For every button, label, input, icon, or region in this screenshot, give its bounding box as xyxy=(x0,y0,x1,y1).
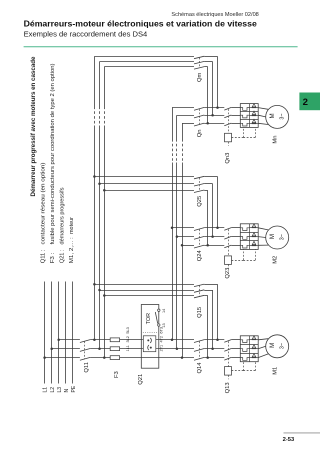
node: bus tap feed1 xyxy=(93,175,96,178)
svg-text:3~: 3~ xyxy=(279,234,285,240)
node: bus tap feed2 xyxy=(98,289,101,292)
svg-text:Démarreurs-moteur électronique: Démarreurs-moteur électroniques et varia… xyxy=(24,19,257,29)
node: starter bus to Q24 row1 xyxy=(171,227,174,230)
contactor Q15 pole 3 xyxy=(194,295,204,298)
terminal 14 of Q21 xyxy=(158,309,160,311)
contactor Q24 pole 2 xyxy=(194,236,204,239)
node: starter bus to Q24 row2 xyxy=(176,235,179,238)
svg-text:3L2: 3L2 xyxy=(126,336,130,342)
node: L3 tap junction xyxy=(57,339,60,342)
wire: starter bus corner row3 to Qn xyxy=(182,123,194,125)
wire: Qn3 out row2 to overload block xyxy=(231,115,240,117)
svg-text:N: N xyxy=(64,389,70,393)
wire: Q23 out row1 to overload block xyxy=(231,227,240,229)
wire: starter output bus vertical 2 xyxy=(176,115,178,139)
wire: line bus vertical 2 xyxy=(99,62,101,107)
phase-control unit box inside Q21 xyxy=(143,336,156,352)
fuse F3 pole 1 xyxy=(110,338,119,342)
wire: Qm out 3 with corner down xyxy=(204,66,207,68)
wire: line bus vertical 3 xyxy=(104,67,106,107)
contactor Q11 pole 2 xyxy=(80,349,90,352)
svg-text:M: M xyxy=(269,113,276,118)
svg-text:Q14: Q14 xyxy=(197,362,203,374)
contactor Q25 pole 3 xyxy=(194,190,204,193)
trip linkage Q13 to overload block xyxy=(232,370,244,372)
svg-text:F3 :: F3 : xyxy=(50,253,56,264)
title rule xyxy=(24,46,298,48)
overload release element row1 of Q23 xyxy=(240,228,249,231)
wire: bypass feed 2 xyxy=(100,290,195,292)
node: bus tap feed1 xyxy=(93,283,96,286)
svg-text:L3: L3 xyxy=(57,387,63,393)
node: line bus tap row1 xyxy=(93,339,96,342)
node: bypass rejoin row2 xyxy=(211,347,214,350)
overload-semiconductor block of Q23 xyxy=(240,224,258,250)
wire: starter bus corner row2 to Qn xyxy=(177,115,194,117)
wire: block to motor M1 phase1 xyxy=(258,339,268,340)
svg-text:L2: L2 xyxy=(50,387,56,393)
wire: Q23 out row3 to overload block xyxy=(231,245,240,247)
mechanical stub below Qn3 xyxy=(228,142,230,146)
wire: row3 inside Q21 xyxy=(141,357,159,359)
svg-text:2: 2 xyxy=(303,97,308,108)
svg-text:2-53: 2-53 xyxy=(283,437,295,443)
contactor Qn pole 2 xyxy=(194,115,204,118)
wire: Qn3 out row3 to overload block xyxy=(231,123,240,125)
wire: Q13 out row1 to overload block xyxy=(231,339,240,341)
overload release element row2 of Qn3 xyxy=(240,115,249,118)
wire: starter rows to Q24 row3 xyxy=(182,245,194,247)
wire: Q25 out 3 with corner down xyxy=(204,190,207,192)
node: L1 tap junction xyxy=(43,356,46,359)
wire: Qn out row1 xyxy=(204,107,224,109)
semiconductor element row3 of Q23 xyxy=(252,241,255,244)
terminal 13 of Q21 xyxy=(158,324,160,326)
wire: PE rail xyxy=(72,282,74,384)
node: bypass rejoin row3 xyxy=(206,244,209,247)
trip unit Q13 box xyxy=(225,367,232,376)
wire: bypass feed 2 xyxy=(100,61,195,63)
svg-text:Q21 :: Q21 : xyxy=(59,249,65,263)
separator inside Q21 xyxy=(143,332,157,334)
semiconductor element row2 of Q13 xyxy=(252,345,255,348)
svg-text:M: M xyxy=(269,343,276,348)
svg-text:Q21: Q21 xyxy=(138,374,144,385)
breaker Qn3 contact 2 xyxy=(224,115,231,118)
node: starter bus to Q24 row3 xyxy=(181,244,184,247)
wire: fuse2 to Q21 3L2 xyxy=(120,348,142,350)
contactor Q24 pole 3 xyxy=(194,245,204,248)
semiconductor element row1 of Q23 xyxy=(252,224,255,227)
svg-text:1L1: 1L1 xyxy=(126,345,130,351)
thyristor symbol a inside Q21 xyxy=(147,339,149,341)
wire: bypass feed 3 xyxy=(104,295,194,297)
wire: block to motor M2 phase3 xyxy=(258,244,268,246)
wire: L1 to Q11 pole 3 xyxy=(45,357,80,359)
svg-text:PE: PE xyxy=(71,385,77,392)
semiconductor element row3 of Qn3 xyxy=(252,119,255,122)
fuse F3 pole 3 xyxy=(110,356,119,360)
svg-text:Exemples de raccordement des D: Exemples de raccordement des DS4 xyxy=(24,29,148,38)
mechanical link Q25 xyxy=(199,178,201,192)
wire: Q11 out row2 to fuse F3 pole2 xyxy=(90,348,110,350)
node: bypass rejoin row1 xyxy=(216,106,219,109)
semiconductor element row2 of Q23 xyxy=(252,233,255,236)
mechanical link Qm xyxy=(199,58,201,68)
overload release element row3 of Q23 xyxy=(240,245,249,248)
mechanical stub below Q13 xyxy=(228,375,230,379)
wire: block to motor M1 phase2 xyxy=(258,346,266,348)
wire: Q21 6T3 out row1 xyxy=(159,339,194,341)
wire: block to motor M1 phase3 xyxy=(258,354,268,358)
contactor Q24 pole 1 xyxy=(194,228,204,231)
wire: Q14 out row3 xyxy=(204,357,224,359)
node: starter bus tap row1 xyxy=(171,339,174,342)
mechanical link Q24 xyxy=(199,229,201,247)
svg-text:13: 13 xyxy=(162,323,166,327)
wire: bypass feed 3 xyxy=(104,66,194,68)
svg-text:M2: M2 xyxy=(273,256,279,264)
svg-text:TOR: TOR xyxy=(146,313,152,324)
svg-text:6T3: 6T3 xyxy=(159,327,163,334)
svg-text:M1, 2,... :: M1, 2,... : xyxy=(69,237,75,263)
wire: L3 to Q11 pole 1 xyxy=(59,339,80,341)
trip linkage Q23 to overload block xyxy=(232,260,244,262)
soft starter Q21 body xyxy=(141,305,159,369)
motor M2 xyxy=(266,226,289,249)
contactor Qm pole 1 xyxy=(194,56,204,59)
contactor Qn pole 3 xyxy=(194,123,204,126)
svg-text:3~: 3~ xyxy=(279,114,285,120)
wire: Q24 out row3 xyxy=(204,245,224,247)
overload release element row3 of Qn3 xyxy=(240,123,249,126)
svg-text:démarreurs progressifs: démarreurs progressifs xyxy=(59,187,65,244)
wire: row1 inside Q21 xyxy=(141,339,143,341)
overload-semiconductor block of Q13 xyxy=(240,336,258,362)
svg-text:F3: F3 xyxy=(114,371,120,378)
wire: Q21 4T2 out row2 xyxy=(159,348,194,350)
mechanical link Qn3 xyxy=(228,109,230,133)
wire: fuse3 to Q21 1L1 xyxy=(120,357,142,359)
wire: block to motor Mn phase1 xyxy=(258,108,268,110)
svg-text:Schémas électriques Moeller 02: Schémas électriques Moeller 02/08 xyxy=(171,12,258,18)
wire: L2 rail xyxy=(51,282,53,384)
svg-text:Q24: Q24 xyxy=(197,249,203,261)
breaker Qn3 contact 1 xyxy=(224,107,231,110)
semiconductor element row1 of Q13 xyxy=(252,336,255,339)
wire: L1 rail xyxy=(44,282,46,384)
wire: Qn out row3 xyxy=(204,123,224,125)
wire: block to motor M2 phase1 xyxy=(258,228,268,230)
node: bus tap feed2 xyxy=(98,182,101,185)
wire: Q13 out row2 to overload block xyxy=(231,348,240,350)
wire: block to motor M2 phase2 xyxy=(258,236,266,239)
footer rule xyxy=(284,432,320,434)
node: starter bus tap row2 xyxy=(176,347,179,350)
svg-text:14: 14 xyxy=(162,309,166,313)
svg-text:L1: L1 xyxy=(43,387,49,393)
svg-text:fusible pour semi-conducteurs: fusible pour semi-conducteurs pour coord… xyxy=(50,63,56,244)
overload-semiconductor block of Qn3 xyxy=(240,104,258,128)
wire: Qn out row2 xyxy=(204,115,224,117)
breaker Q13 contact 2 xyxy=(224,349,231,352)
breaker Qn3 contact 3 xyxy=(224,123,231,126)
overload release element row3 of Q13 xyxy=(240,358,249,361)
wire: L2 to Q11 pole 2 xyxy=(52,348,80,350)
wire: Q15 out 3 with corner down xyxy=(204,295,207,297)
motor M1 xyxy=(266,335,289,358)
contactor Qn pole 1 xyxy=(194,107,204,110)
svg-text:M: M xyxy=(269,234,276,239)
breaker Q13 contact 3 xyxy=(224,357,231,360)
node: bypass rejoin row3 xyxy=(206,122,209,125)
contactor Q15 pole 2 xyxy=(194,290,204,293)
contactor Q15 pole 1 xyxy=(194,284,204,287)
contactor Qm pole 2 xyxy=(194,61,204,64)
wire: bypass feed 1 xyxy=(94,56,194,58)
wire: Q25 out 2 with corner down xyxy=(204,183,212,185)
mechanical link Q14 xyxy=(199,341,201,359)
node: starter bus tap row3 xyxy=(181,356,184,359)
node: bypass rejoin row1 xyxy=(216,227,219,230)
wire: starter bus corner row1 to Qn xyxy=(172,107,194,109)
svg-text:Démarreur progressif avec mote: Démarreur progressif avec moteurs en cas… xyxy=(30,56,37,197)
chapter tab 2 xyxy=(299,93,320,111)
node: bypass rejoin row1 xyxy=(216,339,219,342)
svg-text:Q23: Q23 xyxy=(225,268,231,279)
breaker Q23 contact 3 xyxy=(224,245,231,248)
group M1 : bottom motor branch xyxy=(93,283,289,393)
overload release element row2 of Q13 xyxy=(240,349,249,352)
node: line bus tap row2 xyxy=(98,347,101,350)
motor Mn xyxy=(266,105,289,128)
breaker Q23 contact 2 xyxy=(224,236,231,239)
contactor Q14 pole 1 xyxy=(194,340,204,343)
wire: starter rows to Q24 row2 xyxy=(177,236,194,238)
wire: Qm out 1 with corner down xyxy=(204,56,217,58)
contactor Q25 pole 1 xyxy=(194,176,204,179)
svg-text:Q11 :: Q11 : xyxy=(41,249,47,263)
wire: Q15 out 2 with corner down xyxy=(204,290,212,292)
svg-text:Q11: Q11 xyxy=(84,362,90,373)
wire: starter output bus vertical 3 xyxy=(182,123,184,139)
mechanical link Q11 xyxy=(84,341,86,359)
wire: L3 rail xyxy=(58,282,60,384)
contactor Q14 pole 3 xyxy=(194,357,204,360)
wire: bypass feed 1 xyxy=(94,284,194,286)
semiconductor element row1 of Qn3 xyxy=(252,104,255,107)
node: bypass rejoin row2 xyxy=(211,114,214,117)
svg-text:moteur: moteur xyxy=(69,217,75,234)
wire: Q14 out row2 xyxy=(204,348,224,350)
overload release element row1 of Qn3 xyxy=(240,108,249,111)
svg-text:contacteur réseau (en option): contacteur réseau (en option) xyxy=(41,162,47,244)
wire: Q14 out row1 xyxy=(204,339,224,341)
node: line bus tap row3 xyxy=(103,356,106,359)
wire: Q21 2T1 out row3 xyxy=(159,357,194,359)
svg-text:Q15: Q15 xyxy=(197,307,203,318)
wire: Q11 out row3 to fuse F3 pole3 xyxy=(90,357,110,359)
svg-text:M1: M1 xyxy=(273,367,279,375)
wire: block to motor Mn phase3 xyxy=(258,123,268,124)
wire: Q15 out 1 with corner down xyxy=(204,284,217,286)
svg-text:5L3: 5L3 xyxy=(126,327,130,333)
node: bus tap feed3 xyxy=(103,189,106,192)
node: bypass rejoin row2 xyxy=(211,235,214,238)
contactor Q11 pole 1 xyxy=(80,340,90,343)
semiconductor element row3 of Q13 xyxy=(252,354,255,357)
node: bypass rejoin row3 xyxy=(206,356,209,359)
svg-text:3~: 3~ xyxy=(279,343,285,349)
wire: Q11 out row1 to fuse F3 pole1 xyxy=(90,339,110,341)
wire: N rail xyxy=(65,282,67,384)
node: L2 tap junction xyxy=(50,347,53,350)
wire: Qm out 2 with corner down xyxy=(204,61,212,63)
fuse F3 pole 2 xyxy=(110,347,119,351)
wire: Q13 out row3 to overload block xyxy=(231,357,240,359)
contactor Q11 pole 3 xyxy=(80,357,90,360)
wire: line bus vertical 1 xyxy=(94,56,96,106)
wire: bypass feed 1 xyxy=(94,176,194,178)
svg-text:Q13: Q13 xyxy=(225,382,231,393)
svg-text:Qn: Qn xyxy=(197,129,203,137)
svg-text:Qn3: Qn3 xyxy=(225,153,231,164)
wire: row2 inside Q21 xyxy=(141,348,143,350)
svg-text:Qm: Qm xyxy=(197,72,203,82)
mechanical link Qn xyxy=(199,109,201,125)
wire: starter output bus vertical 1 xyxy=(172,108,174,139)
wire: fuse1 to Q21 5L3 xyxy=(120,339,142,341)
contactor Qm pole 3 xyxy=(194,67,204,70)
svg-text:Q25: Q25 xyxy=(197,196,203,207)
svg-text:Mn: Mn xyxy=(273,136,279,144)
breaker Q13 contact 1 xyxy=(224,340,231,343)
mechanical stub below Q23 xyxy=(228,264,230,268)
group M2 : middle motor branch xyxy=(93,175,289,278)
overload release element row1 of Q13 xyxy=(240,340,249,343)
trip linkage Qn3 to overload block xyxy=(232,137,244,139)
aux contact 13-14 of Q21 xyxy=(155,312,157,324)
trip unit Qn3 box xyxy=(225,133,232,142)
mechanical link Q13 xyxy=(228,341,230,366)
wire: Q24 out row2 xyxy=(204,236,224,238)
overload release element row2 of Q23 xyxy=(240,237,249,240)
trip unit Q23 box xyxy=(225,256,232,265)
wire: bypass feed 2 xyxy=(100,183,195,185)
contactor Q25 pole 2 xyxy=(194,184,204,187)
thyristor symbol b inside Q21 xyxy=(150,347,152,349)
breaker Q23 contact 1 xyxy=(224,228,231,231)
wire: Qn3 out row1 to overload block xyxy=(231,107,240,109)
wire: Q24 out row1 xyxy=(204,227,224,229)
group Mn : top motor branch xyxy=(94,56,288,163)
wire: starter rows to Q24 row1 xyxy=(172,227,194,229)
node: bus tap feed3 xyxy=(103,294,106,297)
wire: Q23 out row2 to overload block xyxy=(231,236,240,238)
contactor Q14 pole 2 xyxy=(194,349,204,352)
wire: Q25 out 1 with corner down xyxy=(204,176,217,178)
mechanical link Q23 xyxy=(228,229,230,256)
semiconductor element row2 of Qn3 xyxy=(252,111,255,114)
wire: bypass feed 3 xyxy=(104,190,194,192)
wire: block to motor Mn phase2 xyxy=(258,115,266,117)
mechanical link Q15 xyxy=(199,286,201,297)
